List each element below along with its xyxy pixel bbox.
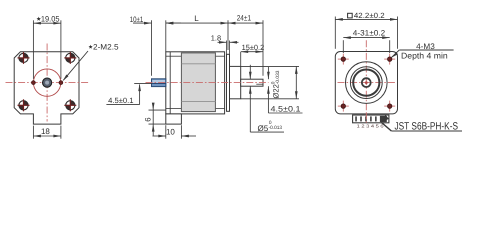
svg-text:-0.033: -0.033: [275, 70, 281, 84]
svg-text:Depth 4 min: Depth 4 min: [401, 50, 448, 60]
svg-text:15±0.2: 15±0.2: [242, 43, 265, 52]
svg-text:2-M2.5: 2-M2.5: [93, 43, 119, 52]
svg-text:10±1: 10±1: [130, 15, 144, 24]
svg-text:JST S6B-PH-K-S: JST S6B-PH-K-S: [395, 120, 459, 132]
svg-text:-0.013: -0.013: [269, 125, 283, 131]
svg-text:4.5±0.1: 4.5±0.1: [271, 105, 301, 114]
svg-text:4.5±0.1: 4.5±0.1: [108, 96, 133, 105]
svg-text:4-31±0.2: 4-31±0.2: [353, 28, 385, 37]
svg-text:19.05: 19.05: [41, 14, 60, 23]
svg-text:1 2 3 4 5 6: 1 2 3 4 5 6: [357, 123, 385, 128]
svg-text:Ø22: Ø22: [272, 84, 281, 98]
svg-text:18: 18: [41, 127, 50, 136]
svg-text:L: L: [194, 14, 199, 23]
svg-text:10: 10: [166, 127, 175, 136]
svg-text:Ø5: Ø5: [258, 124, 269, 133]
svg-text:42.2±0.2: 42.2±0.2: [354, 11, 385, 20]
svg-text:6: 6: [144, 117, 153, 121]
svg-text:24±1: 24±1: [237, 14, 251, 23]
